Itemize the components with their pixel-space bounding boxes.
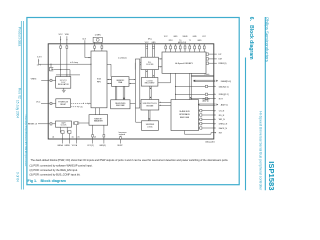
svg-text:GND(3): GND(3)	[99, 145, 106, 147]
svg-text:© Koninklijke Philips Electron: © Koninklijke Philips Electronics N.V. 2…	[24, 115, 27, 168]
svg-text:RESET: RESET	[60, 104, 67, 106]
svg-text:LOGIC: LOGIC	[147, 126, 153, 128]
svg-text:DREQ_N: DREQ_N	[219, 124, 228, 126]
svg-text:ISP1583: ISP1583	[267, 161, 276, 190]
arrows C-PIE	[159, 101, 171, 103]
wire: wire RESET_N	[38, 123, 56, 125]
row R1 DATA bus	[194, 79, 216, 81]
svg-text:Block diagram: Block diagram	[41, 179, 67, 183]
wire: wire VREG	[41, 79, 56, 81]
svg-text:AD[7:0]: AD[7:0]	[221, 103, 228, 106]
wires B-B2	[145, 70, 147, 78]
svg-text:MANAGER: MANAGER	[94, 120, 104, 123]
arrows T-A	[107, 79, 112, 81]
svg-text:Hi-Speed USB ATX: Hi-Speed USB ATX	[175, 62, 193, 65]
svg-text:Hi-Speed Universal Serial Bus: Hi-Speed Universal Serial Bus peripheral…	[259, 111, 263, 191]
svg-text:AND RAM: AND RAM	[116, 104, 125, 107]
svg-text:SLAVE BUS: SLAVE BUS	[179, 110, 190, 113]
svg-text:INTERFACE: INTERFACE	[179, 113, 190, 116]
block: PLL clock multiplier B	[141, 57, 158, 69]
svg-text:RREF(1): RREF(1)	[219, 63, 227, 65]
svg-text:GNDA: GNDA	[57, 144, 63, 147]
wire: transistor to regulator	[53, 69, 70, 71]
wire: wire T-T2 b	[99, 108, 101, 115]
svg-text:GND: GND	[152, 42, 157, 44]
wire: wire T-T2 a	[95, 108, 97, 115]
svg-text:DM: DM	[219, 59, 222, 61]
svg-text:suspend: suspend	[119, 134, 125, 136]
svg-text:Philips Semiconductors: Philips Semiconductors	[264, 17, 269, 62]
block: crystal X1	[93, 37, 102, 42]
block: 8 kB FIFO memory T	[91, 51, 107, 108]
svg-text:to all blocks: to all blocks	[118, 56, 127, 59]
pin row DACK_N	[199, 127, 214, 129]
pin INT	[185, 131, 214, 135]
wire CLKOUT	[84, 40, 86, 57]
wire: POR internal dashed	[71, 102, 83, 104]
block: clock recovery B2	[141, 78, 158, 87]
block: lazy clock	[56, 121, 72, 127]
svg-text:(1) POR: connected by software: (1) POR: connected by software WAKEUP co…	[30, 163, 93, 167]
svg-text:GND: GND	[173, 36, 178, 38]
block: Hi-Speed USB ATX	[162, 52, 206, 73]
wire: pin DP	[206, 53, 217, 55]
svg-text:CLOCKS: CLOCKS	[146, 64, 154, 66]
block: 3.3V-to-1.8V regulator	[56, 77, 71, 89]
wire: wire A-A3 p2b	[124, 86, 126, 100]
row R2	[176, 85, 214, 87]
row R3	[176, 93, 214, 95]
svg-text:(DQ[15:0]): (DQ[15:0])	[202, 99, 210, 101]
svg-text:GNDD: GNDD	[64, 145, 70, 147]
svg-text:15 July 2004: 15 July 2004	[15, 100, 19, 118]
ground symbol	[63, 88, 65, 90]
svg-text:VREG: VREG	[31, 78, 37, 80]
chip boundary ISP1583	[48, 44, 214, 139]
svg-text:9 of 64: 9 of 64	[15, 172, 19, 182]
figure frame	[27, 18, 239, 185]
svg-text:3.3 V: 3.3 V	[37, 57, 42, 59]
block: slave bus interface PIE	[171, 100, 199, 131]
svg-text:to V clamp: to V clamp	[70, 61, 78, 64]
svg-text:(ATX) (1.8): (ATX) (1.8)	[178, 41, 187, 44]
wires: bus bar to PLL	[134, 63, 136, 70]
wire: wire VCC(3.3) down	[60, 36, 62, 76]
block: memory management T2	[89, 115, 108, 126]
row R4	[191, 98, 214, 100]
wire bus bar to suspend logic	[135, 108, 137, 122]
svg-text:DACK_N: DACK_N	[219, 127, 228, 130]
wire: wire VCC(1.8) down	[66, 36, 68, 76]
pin row CS_N	[199, 110, 214, 112]
svg-text:WR_N: WR_N	[219, 119, 225, 121]
svg-text:REGULATOR: REGULATOR	[58, 83, 69, 86]
block: generic DMA A	[112, 77, 130, 87]
block: philips SIE C	[141, 100, 159, 111]
wire: pin RREF	[206, 62, 217, 64]
svg-text:DACK[2:1]: DACK[2:1]	[219, 85, 229, 88]
pin: 3.3V wire	[38, 59, 40, 64]
svg-text:GND: GND	[193, 36, 198, 38]
svg-text:CLOCK: CLOCK	[61, 125, 68, 127]
wire: wire XTAL2	[101, 42, 103, 51]
wire: regulator feed	[56, 74, 80, 76]
svg-text:FIFO: FIFO	[97, 82, 102, 84]
svg-text:SUSP: SUSP	[117, 145, 123, 147]
wire: wire B top p2a	[152, 44, 154, 57]
block: suspend logic D	[142, 121, 159, 131]
svg-text:(PLL): (PLL)	[148, 39, 153, 41]
svg-text:VCC: VCC	[58, 34, 63, 36]
transistor pass device Q1	[49, 67, 53, 69]
wire: 3.3V rail across	[39, 63, 91, 65]
wire: wire B top p1b	[147, 44, 149, 57]
svg-text:CS_N: CS_N	[219, 111, 225, 113]
svg-text:VBUS: VBUS	[183, 36, 189, 38]
svg-text:RECOVERY: RECOVERY	[145, 83, 156, 85]
svg-text:AND DMA: AND DMA	[180, 116, 189, 119]
wire: wire A-A3 p1a	[115, 86, 117, 100]
svg-text:(2) POR: connected by the REG_: (2) POR: connected by the REG_EN input.	[30, 168, 79, 172]
svg-text:VCC: VCC	[36, 102, 41, 104]
svg-text:DATA[15:0]: DATA[15:0]	[221, 80, 231, 83]
bus ATX-PIE c (double)	[189, 73, 191, 99]
wire: pin DM	[206, 58, 217, 60]
svg-text:Rev. 02: Rev. 02	[18, 88, 22, 99]
svg-text:GND: GND	[197, 40, 202, 42]
footer rule a	[20, 21, 22, 190]
wire: wire XTAL1	[94, 42, 96, 51]
svg-text:004aaa301: 004aaa301	[205, 141, 214, 143]
svg-text:The dash-dotted blocks (PSW, O: The dash-dotted blocks (PSW, OC) show th…	[31, 158, 229, 162]
svg-text:VCCA: VCCA	[72, 144, 78, 147]
wire: wire VCC	[41, 103, 56, 105]
svg-text:DREQ[2:1]: DREQ[2:1]	[219, 94, 229, 96]
wire: POR internal dashed 2	[71, 106, 79, 108]
svg-text:(3) POR: connected by BUS_CONF: (3) POR: connected by BUS_CONF input bit…	[30, 172, 81, 176]
wire: wire A-A3 p1b	[116, 86, 118, 100]
bus ATX-PIE b	[175, 73, 177, 99]
arrows B-ATX	[158, 58, 162, 60]
block: power-on reset	[56, 99, 71, 108]
svg-text:Fig 1.: Fig 1.	[28, 179, 38, 183]
crystal symbol at lazy clock	[73, 122, 75, 125]
svg-text:T1: T1	[189, 40, 191, 42]
svg-text:VCC(2): VCC(2)	[87, 145, 94, 147]
wire: wire A3-C	[130, 103, 141, 105]
svg-text:6. Block diagram: 6. Block diagram	[248, 17, 254, 60]
svg-text:VDD: VDD	[65, 34, 70, 36]
bottom pin group 1 (from lazy clock)	[59, 127, 61, 132]
svg-text:RESET_N: RESET_N	[28, 123, 38, 125]
bottom pin from crystal symbol	[76, 125, 78, 144]
bottom pins from memory manager	[92, 125, 94, 143]
block: control registers A3	[111, 100, 130, 109]
pin row RD_N	[199, 114, 214, 116]
ATX top pins	[165, 44, 167, 52]
block: internal bus bar	[135, 59, 139, 108]
footer rule b	[22, 21, 24, 190]
wire crystal to memory manager	[79, 122, 89, 124]
section rule below heading	[245, 58, 247, 191]
header rule	[264, 17, 266, 190]
svg-text:Product data: Product data	[18, 27, 22, 46]
bus B2-C	[149, 86, 151, 99]
svg-text:12 MHz: 12 MHz	[95, 35, 101, 37]
row R0 data to edge	[191, 74, 214, 76]
wire: wire B top p2b	[153, 44, 155, 57]
svg-text:RD_N: RD_N	[219, 115, 225, 117]
bus AD[7:0]	[199, 103, 216, 105]
arrows A-bus	[129, 79, 135, 81]
wire: wire A-A3 p2a	[122, 86, 124, 100]
wire: wire B top p1a	[145, 44, 147, 57]
svg-text:ENGINE: ENGINE	[146, 106, 154, 108]
pin row DREQ_N	[199, 123, 214, 125]
bus C-D	[148, 110, 150, 121]
wire B2-ATX return	[158, 82, 171, 84]
pin row WR_N	[199, 118, 214, 120]
